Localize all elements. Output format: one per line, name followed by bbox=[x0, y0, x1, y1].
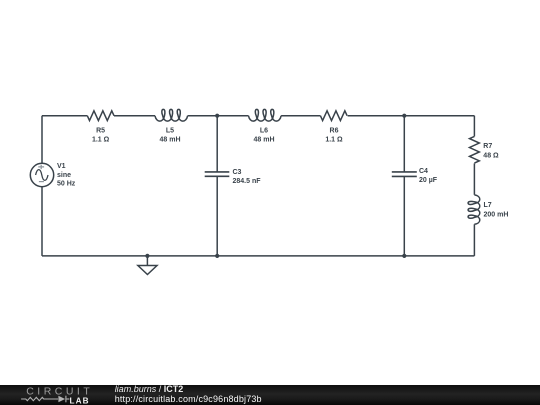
svg-text:48 Ω: 48 Ω bbox=[483, 152, 499, 159]
svg-text:sine: sine bbox=[57, 172, 71, 179]
svg-text:48 mH: 48 mH bbox=[159, 137, 180, 144]
svg-text:http://circuitlab.com/c9c96n8d: http://circuitlab.com/c9c96n8dbj73b bbox=[115, 394, 262, 404]
svg-text:liam.burns / ICT2: liam.burns / ICT2 bbox=[115, 384, 184, 394]
svg-text:R5: R5 bbox=[96, 128, 105, 135]
svg-text:LAB: LAB bbox=[70, 397, 90, 405]
svg-text:284.5 nF: 284.5 nF bbox=[233, 178, 262, 185]
svg-text:L7: L7 bbox=[484, 202, 492, 209]
svg-text:C3: C3 bbox=[233, 169, 242, 176]
svg-text:V1: V1 bbox=[57, 163, 66, 170]
svg-text:C4: C4 bbox=[419, 168, 428, 175]
svg-text:20 µF: 20 µF bbox=[419, 177, 438, 184]
svg-text:200 mH: 200 mH bbox=[484, 211, 509, 218]
svg-text:R7: R7 bbox=[483, 143, 492, 150]
svg-text:1.1 Ω: 1.1 Ω bbox=[325, 137, 343, 144]
svg-text:1.1 Ω: 1.1 Ω bbox=[92, 137, 110, 144]
svg-text:50 Hz: 50 Hz bbox=[57, 181, 76, 188]
svg-text:48 mH: 48 mH bbox=[253, 137, 274, 144]
svg-text:L5: L5 bbox=[166, 128, 174, 135]
svg-text:L6: L6 bbox=[260, 128, 268, 135]
svg-text:R6: R6 bbox=[330, 128, 339, 135]
